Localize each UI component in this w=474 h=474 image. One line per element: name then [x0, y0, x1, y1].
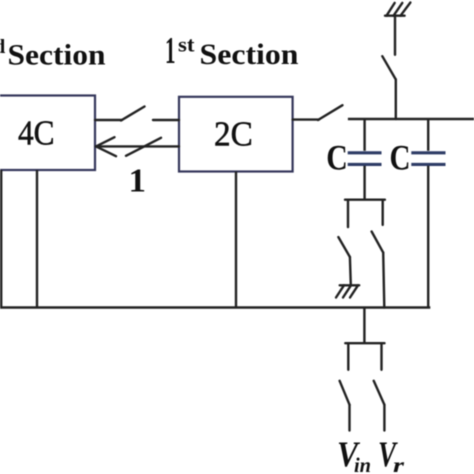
wire: 2C right stub	[293, 118, 319, 120]
switch S3 from ground G1 to top bus	[382, 16, 396, 119]
switch S1 between 4C and 2C (top)	[95, 107, 179, 121]
svg-text:1: 1	[165, 30, 176, 72]
switch blade	[372, 232, 384, 253]
wire: bracket bar	[345, 342, 384, 344]
capacitor C (left)	[326, 119, 381, 200]
wire: far-left vertical (cropped branch)	[0, 170, 2, 308]
branch bracket for input switches	[345, 343, 384, 370]
switch slash	[126, 138, 161, 156]
switch blade	[382, 56, 396, 79]
svg-text:in: in	[354, 453, 371, 474]
svg-text:Section: Section	[200, 38, 299, 71]
wire: down to Vin	[348, 405, 350, 431]
wire: from ground down	[394, 16, 396, 55]
wire: arrow shaft	[96, 145, 179, 147]
wire: down to ground	[349, 257, 352, 285]
svg-text:C: C	[326, 138, 348, 178]
capacitor block 4C (box cropped at left)	[0, 96, 95, 171]
switch blade	[318, 105, 343, 120]
wire: top bus	[348, 118, 474, 121]
svg-text:st: st	[178, 33, 195, 57]
top plate	[348, 151, 382, 154]
switch blade	[121, 107, 145, 121]
wire: down to bottom bus	[383, 253, 384, 308]
switch S2 at 2C right output	[293, 105, 343, 120]
wire: bracket bar	[345, 198, 385, 200]
svg-text:r: r	[393, 453, 405, 474]
svg-text:1: 1	[129, 163, 147, 200]
wire: bracket left leg	[347, 200, 349, 227]
switch S4 to ground G2	[338, 237, 350, 285]
wire: bracket left leg	[347, 343, 349, 370]
label: 2nd Section (cropped at left edge)	[0, 36, 106, 72]
svg-text:C: C	[390, 138, 411, 178]
label: Vr	[378, 434, 405, 474]
bottom plate	[348, 163, 382, 166]
wire: bottom leg	[363, 166, 365, 200]
ground G1 (top right)	[385, 3, 410, 16]
switch S7 to Vr	[374, 381, 385, 431]
bottom plate	[411, 163, 445, 166]
svg-text:nd: nd	[0, 36, 5, 58]
arrowhead upper	[96, 137, 115, 146]
svg-text:2C: 2C	[214, 115, 253, 154]
arrowhead lower	[96, 146, 116, 156]
top plate	[411, 151, 445, 154]
wire: 2C bottom stub to bottom bus	[235, 172, 237, 308]
branch bracket under left capacitor	[345, 200, 385, 227]
label: 1st Section	[165, 30, 299, 72]
wire: down to Vr	[383, 405, 385, 431]
wire: top leg	[363, 119, 365, 151]
arrow with switch slash (2C to 4C), label 1	[96, 137, 179, 156]
wire: bottom leg to bottom bus	[427, 166, 429, 308]
svg-text:Section: Section	[8, 39, 106, 72]
svg-text:4C: 4C	[18, 114, 55, 153]
wire: tap from bottom bus down	[363, 308, 365, 344]
wire: bracket right leg	[380, 343, 382, 370]
label: Vin	[337, 434, 371, 474]
switch S6 to Vin	[340, 381, 350, 431]
switch blade	[340, 381, 350, 405]
wire: top leg	[427, 119, 429, 151]
switch blade	[374, 381, 385, 405]
wire: 4C bottom stub to bottom bus	[36, 170, 38, 308]
switch S5 to bottom bus	[372, 232, 385, 308]
wire: 2C left stub	[153, 119, 179, 121]
switch blade	[338, 237, 350, 257]
wire: to top bus	[395, 80, 397, 120]
ground G2	[336, 285, 359, 297]
capacitor block 2C	[179, 97, 293, 172]
wire: bracket right leg	[382, 200, 384, 225]
capacitor C (right)	[390, 119, 446, 308]
wire: 4C right stub	[95, 119, 122, 121]
wire: bottom bus	[0, 306, 430, 309]
